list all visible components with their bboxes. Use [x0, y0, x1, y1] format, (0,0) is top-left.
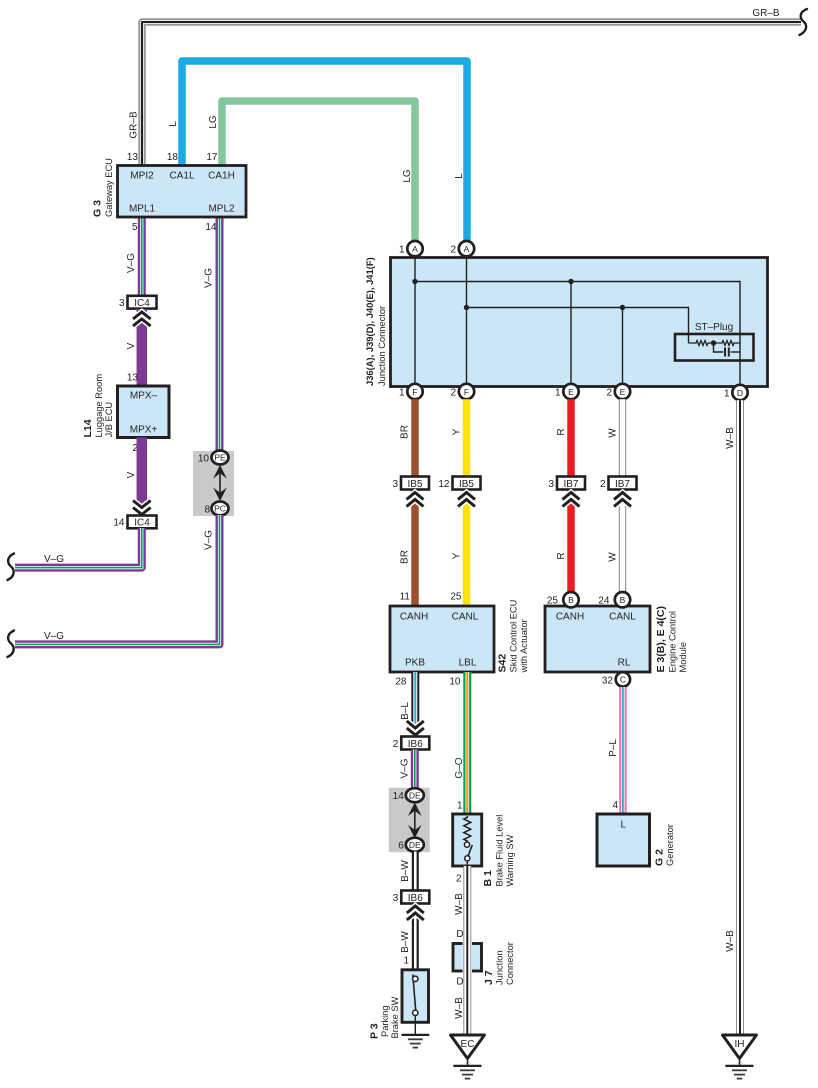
junction connector J36(A) J39(D) J40(E) J41(F) box: [391, 258, 768, 387]
brake fluid level warning switch B1 box: [453, 814, 482, 866]
pin 1 of P3: [403, 956, 409, 967]
svg-text:1: 1: [403, 956, 409, 967]
junction node CANL at 2(A): [464, 305, 469, 310]
svg-text:B–L: B–L: [400, 702, 411, 720]
wire V (violet) IC4 to L14 MPX- pin 13: [137, 309, 148, 386]
svg-text:CA1H: CA1H: [208, 171, 235, 182]
pin 25(B) number: [547, 596, 559, 607]
svg-text:6: 6: [398, 841, 404, 852]
switch SW in B1: [464, 842, 472, 866]
label Y upper: [452, 428, 463, 435]
label W lower: [608, 552, 619, 562]
ground symbol under P3: [402, 1035, 430, 1048]
chevron arrows down above IB6: [407, 721, 424, 735]
internal CANL bus horizontal to ST-plug: [467, 308, 689, 344]
svg-text:GR–B: GR–B: [129, 111, 140, 139]
svg-text:A: A: [412, 244, 418, 254]
wire G-O from S42 LBL pin 10 to B1 pin 1: [463, 672, 471, 815]
svg-text:LG: LG: [402, 169, 413, 183]
connector IB6 pin 2: [393, 737, 430, 751]
wire V-G from IB6 to DE: [411, 750, 419, 791]
label W-B lower right: [725, 930, 736, 952]
svg-text:12: 12: [438, 479, 450, 490]
svg-text:4: 4: [612, 800, 618, 811]
svg-text:R: R: [556, 428, 567, 435]
label J 7 Junction Connector: [483, 942, 515, 985]
svg-text:E: E: [620, 387, 626, 397]
connector IC4 pin 3: [119, 296, 157, 309]
connector DE pin 6: [398, 838, 424, 852]
svg-text:CANL: CANL: [452, 612, 479, 623]
pin 18: [167, 152, 179, 163]
label B 1 Brake Fluid Level Warning SW: [482, 815, 515, 887]
svg-text:5: 5: [132, 222, 138, 233]
internal wire CANL vertical 2(A) to 2(F): [466, 257, 468, 387]
svg-text:B: B: [620, 595, 626, 605]
label B-L: [400, 702, 411, 720]
pin 2 of L14: [132, 443, 138, 454]
label E 3(B), E 4(C) Engine Control Module: [655, 606, 688, 673]
svg-text:3: 3: [548, 479, 554, 490]
svg-text:D: D: [737, 388, 743, 398]
svg-text:V–G: V–G: [204, 268, 215, 288]
wire Y from 2(F) to S42 CANL pin 25: [463, 399, 471, 606]
connector pin 2(E): [606, 384, 630, 399]
svg-text:MPL2: MPL2: [208, 204, 235, 215]
arrow pair between PE and PC: [213, 465, 227, 501]
svg-text:Junction: Junction: [495, 950, 505, 985]
connector pin 1(D): [724, 385, 748, 400]
wire V-G from IC4 to left page break: [15, 528, 142, 568]
svg-text:PC: PC: [214, 504, 226, 514]
wire B-L from S42 PKB pin 28 to IB6: [411, 672, 419, 737]
svg-text:PKB: PKB: [405, 658, 425, 669]
pin 2 of B1: [456, 874, 462, 885]
label V: [126, 342, 137, 349]
svg-text:2: 2: [606, 388, 612, 399]
svg-text:Warning SW: Warning SW: [505, 834, 515, 886]
svg-text:3: 3: [119, 298, 125, 309]
svg-text:GR–B: GR–B: [752, 8, 780, 19]
generator G2 box: [597, 814, 650, 866]
label V-G lower horizontal: [44, 631, 64, 642]
svg-text:D: D: [456, 929, 463, 940]
connector IC4 pin 14: [113, 516, 156, 529]
shield connector gray block DE/DE: [389, 788, 430, 853]
parking brake switch P3 box: [402, 970, 429, 1023]
svg-text:Connector: Connector: [505, 942, 515, 985]
page break symbol left: [8, 554, 15, 581]
svg-text:W–B: W–B: [725, 930, 736, 952]
svg-text:CANL: CANL: [609, 612, 636, 623]
wire V (violet) L14 MPX+ pin 2 down to IC4: [137, 438, 148, 517]
svg-text:F: F: [412, 387, 417, 397]
svg-text:2: 2: [450, 245, 456, 256]
label D upper: [456, 929, 463, 940]
svg-text:32: 32: [602, 676, 614, 687]
label BR lower: [400, 550, 411, 564]
pin 25: [450, 592, 462, 603]
svg-text:W–B: W–B: [454, 997, 465, 1019]
wire V-G from Gateway MPL1 pin 5 down to IC4: [138, 217, 146, 296]
label S42 Skid Control ECU with Actuator: [497, 600, 530, 674]
svg-text:D: D: [456, 977, 463, 988]
label ST-Plug: [695, 322, 733, 333]
connector PE pin 10: [198, 451, 229, 465]
svg-text:L: L: [621, 820, 627, 831]
svg-text:W–B: W–B: [454, 893, 465, 915]
svg-text:W: W: [608, 428, 619, 438]
svg-text:V–G: V–G: [44, 631, 64, 642]
svg-text:IC4: IC4: [134, 298, 150, 309]
pin 13 of L14: [127, 373, 139, 384]
svg-text:13: 13: [127, 152, 139, 163]
svg-text:10: 10: [449, 677, 461, 688]
label W-B lower: [454, 997, 465, 1019]
ground symbol under IH: [725, 1059, 753, 1079]
switch SW1 in P3: [413, 975, 418, 1035]
arrow pair between DE connectors: [408, 803, 422, 839]
internal CANH bus horizontal: [415, 282, 740, 388]
junction node CANL at 2(E): [620, 305, 625, 310]
wire GR-B from Gateway ECU pin 13 to top-right page break: [142, 22, 801, 166]
svg-text:MPI2: MPI2: [130, 171, 154, 182]
wire W-B from 1(D) to ground IH: [736, 400, 744, 1035]
resistor in B1: [464, 816, 471, 842]
svg-text:W: W: [608, 552, 619, 562]
pin 4 of G2: [612, 800, 618, 811]
pin 14: [205, 222, 217, 233]
wire R from 1(E) to ECM CANH pin 25(B): [567, 399, 575, 592]
svg-text:BR: BR: [400, 425, 411, 439]
label V-G below PC: [204, 530, 215, 550]
svg-text:1: 1: [457, 801, 463, 812]
pin 17: [206, 152, 218, 163]
svg-text:IC4: IC4: [134, 518, 150, 529]
svg-text:J 7: J 7: [483, 970, 495, 985]
label W-B: [454, 893, 465, 915]
svg-text:EC: EC: [461, 1039, 475, 1050]
chevron arrows up below IB7: [614, 493, 631, 507]
chevron arrows up below IB5: [458, 493, 475, 507]
svg-text:L: L: [454, 173, 465, 179]
resistor R1 in ST-Plug: [689, 341, 712, 346]
wire W from 2(E) to ECM CANL pin 24(B): [619, 399, 627, 592]
label W upper: [608, 428, 619, 438]
pin 5: [132, 222, 138, 233]
svg-text:B 1: B 1: [482, 870, 494, 887]
label G 3 Gateway ECU: [92, 158, 115, 217]
svg-text:25: 25: [450, 592, 462, 603]
svg-text:PE: PE: [214, 453, 226, 463]
svg-text:MPL1: MPL1: [129, 204, 156, 215]
svg-text:IB5: IB5: [459, 479, 474, 490]
label V-G: [400, 758, 411, 778]
label GR-B horizontal top right: [752, 8, 780, 19]
svg-text:IB6: IB6: [408, 739, 423, 750]
label LG vertical left: [208, 115, 219, 129]
label L14 Luggage Room J/B ECU: [82, 374, 114, 438]
chevron arrows up below IB6: [407, 906, 424, 920]
svg-text:1: 1: [555, 388, 561, 399]
pin 24(B) number: [598, 596, 610, 607]
junction connector J7 box: [453, 941, 482, 974]
chevron arrows up below IB5: [407, 493, 424, 507]
svg-text:10: 10: [198, 454, 210, 465]
wire BR from 1(F) to S42 CANH pin 11: [411, 399, 419, 606]
chevron arrows up below IC4: [133, 312, 151, 326]
svg-text:Brake Fluid Level: Brake Fluid Level: [495, 815, 505, 887]
pin 13: [127, 152, 139, 163]
label P-L: [608, 739, 619, 757]
connector pin 1(A): [399, 241, 423, 256]
wire W-B from B1 pin 2 to ground EC: [463, 866, 471, 1035]
svg-text:3: 3: [393, 893, 399, 904]
svg-text:G 2: G 2: [654, 849, 666, 866]
junction node CANH at 1(E): [568, 279, 573, 284]
svg-text:L: L: [168, 121, 179, 127]
label W-B upper right: [725, 427, 736, 449]
svg-text:A: A: [464, 244, 470, 254]
svg-text:14: 14: [393, 791, 405, 802]
svg-text:V–G: V–G: [204, 530, 215, 550]
shield connector gray block PE/PC: [193, 451, 234, 516]
svg-text:17: 17: [206, 152, 218, 163]
chevron arrows up below IB7: [563, 493, 580, 507]
svg-text:MPX–: MPX–: [130, 391, 158, 402]
connector pin 2(A): [450, 241, 474, 256]
svg-text:1: 1: [399, 388, 405, 399]
svg-text:14: 14: [205, 222, 217, 233]
svg-text:B–W: B–W: [400, 860, 411, 882]
skid control ECU S42 box: [390, 606, 494, 672]
svg-text:R: R: [556, 552, 567, 559]
ground EC triangle: [451, 1035, 485, 1059]
svg-text:DE: DE: [409, 791, 421, 801]
svg-text:8: 8: [204, 505, 210, 516]
connector IB6 pin 3: [393, 891, 430, 905]
svg-text:MPX+: MPX+: [130, 425, 158, 436]
label V-G: [44, 554, 64, 565]
connector DE pin 14: [393, 788, 424, 802]
svg-text:S42: S42: [497, 654, 509, 673]
label BR upper: [400, 425, 411, 439]
page break symbol right end of GR-B: [800, 9, 808, 35]
svg-text:13: 13: [127, 373, 139, 384]
svg-text:14: 14: [113, 518, 125, 529]
svg-text:Engine Control: Engine Control: [668, 611, 678, 673]
svg-text:2: 2: [393, 739, 399, 750]
svg-text:L14: L14: [82, 419, 94, 437]
svg-text:IB5: IB5: [407, 479, 422, 490]
label V-G: [204, 268, 215, 288]
svg-text:Junction Connector: Junction Connector: [377, 306, 387, 386]
svg-text:W–B: W–B: [725, 427, 736, 449]
connector pin 25(B) circle: [563, 592, 578, 607]
svg-text:IH: IH: [735, 1039, 745, 1050]
label L vertical right: [454, 173, 465, 179]
svg-text:LBL: LBL: [459, 658, 477, 669]
label B-W: [400, 860, 411, 882]
svg-text:LG: LG: [208, 115, 219, 129]
svg-text:DE: DE: [409, 840, 421, 850]
svg-text:2: 2: [456, 874, 462, 885]
svg-text:F: F: [464, 387, 469, 397]
label V-G: [126, 253, 137, 273]
label B-W lower: [400, 931, 411, 953]
chevron arrows down above IC4: [133, 501, 151, 515]
label D lower: [456, 977, 463, 988]
svg-text:with Actuator: with Actuator: [519, 619, 529, 673]
svg-text:G–O: G–O: [454, 757, 465, 778]
svg-text:2: 2: [450, 388, 456, 399]
ST-Plug box: [675, 334, 754, 361]
ground IH triangle: [723, 1035, 757, 1059]
connector IB5 pin 12: [438, 477, 480, 491]
wire LG (green) from Gateway CA1H pin 17 to junction connector 1(A): [222, 101, 415, 242]
label L vertical left: [168, 121, 179, 127]
svg-text:P 3: P 3: [369, 1023, 381, 1039]
wire V-G from Gateway MPL2 pin 14 down to PE: [216, 217, 224, 452]
internal wire CANH vertical 1(A) to 1(F): [414, 257, 416, 387]
label Y lower: [452, 552, 463, 559]
svg-text:Skid Control ECU: Skid Control ECU: [509, 600, 519, 673]
pin 28: [395, 677, 407, 688]
svg-text:2: 2: [600, 479, 606, 490]
svg-text:J/B ECU: J/B ECU: [104, 402, 114, 438]
svg-text:Y: Y: [452, 552, 463, 559]
svg-text:V–G: V–G: [44, 554, 64, 565]
pin 11: [400, 592, 411, 603]
svg-text:3: 3: [392, 479, 398, 490]
svg-text:Module: Module: [678, 642, 688, 673]
svg-text:V: V: [126, 342, 137, 349]
svg-text:11: 11: [400, 592, 411, 603]
svg-text:P–L: P–L: [608, 739, 619, 757]
connector pin 1(E): [555, 384, 579, 399]
label P 3 Parking Brake SW: [369, 996, 401, 1039]
svg-text:B: B: [568, 595, 574, 605]
wire W-B through J7: [463, 940, 471, 974]
svg-text:V–G: V–G: [400, 758, 411, 778]
L14 Luggage Room J/B ECU box: [118, 386, 170, 438]
ground symbol under EC: [453, 1059, 481, 1079]
wire B-W from IB6 to parking brake SW pin 1: [412, 904, 419, 972]
svg-text:CANH: CANH: [400, 612, 428, 623]
svg-text:28: 28: [395, 677, 407, 688]
label V: [126, 471, 137, 478]
svg-text:Parking: Parking: [380, 1005, 390, 1037]
connector pin 32(C) circle: [602, 672, 630, 686]
svg-text:IB7: IB7: [615, 479, 630, 490]
label G 2 Generator: [654, 824, 676, 866]
svg-text:G 3: G 3: [92, 200, 104, 217]
svg-text:Gateway ECU: Gateway ECU: [104, 158, 114, 217]
junction node between resistors: [711, 340, 716, 345]
svg-text:CA1L: CA1L: [169, 171, 194, 182]
junction node CANH at 1(A): [412, 279, 417, 284]
wire P-L from ECM RL pin 32(C) to generator pin 4: [619, 687, 627, 814]
svg-text:18: 18: [167, 152, 179, 163]
label R lower: [556, 552, 567, 559]
connector pin 24(B) circle: [615, 592, 630, 607]
wire L (blue) from Gateway CA1L pin 18 to junction connector 2(A): [182, 61, 467, 242]
resistor R2 in ST-Plug: [716, 341, 740, 346]
page break symbol left lower: [8, 631, 15, 658]
svg-text:BR: BR: [400, 550, 411, 564]
svg-text:V–G: V–G: [126, 253, 137, 273]
svg-text:E: E: [568, 387, 574, 397]
pin 10: [449, 677, 461, 688]
connector IB5 pin 3: [392, 477, 429, 491]
Gateway ECU G3 box: [118, 166, 247, 218]
svg-text:RL: RL: [618, 658, 631, 669]
svg-text:Y: Y: [452, 428, 463, 435]
svg-text:Luggage Room: Luggage Room: [94, 374, 104, 438]
svg-text:1: 1: [724, 389, 730, 400]
label GR-B vertical: [129, 111, 140, 139]
engine control module box: [545, 606, 650, 672]
svg-text:C: C: [620, 675, 626, 685]
connector PC pin 8: [204, 502, 228, 516]
capacitor C1 in ST-Plug: [714, 343, 741, 357]
svg-text:CANH: CANH: [556, 612, 584, 623]
svg-text:V: V: [126, 471, 137, 478]
svg-text:E 3(B), E 4(C): E 3(B), E 4(C): [655, 606, 667, 673]
label G-O: [454, 757, 465, 778]
svg-text:ST–Plug: ST–Plug: [695, 322, 733, 333]
connector pin 1(F): [399, 384, 423, 399]
internal wire vertical to 2(E): [622, 308, 624, 388]
svg-text:Generator: Generator: [665, 824, 675, 866]
svg-text:IB7: IB7: [563, 479, 578, 490]
label R upper: [556, 428, 567, 435]
svg-text:J36(A), J39(D), J40(E), J41(F): J36(A), J39(D), J40(E), J41(F): [364, 257, 375, 386]
wire B-W from DE to IB6: [412, 852, 419, 891]
svg-text:Brake SW: Brake SW: [390, 996, 400, 1038]
wire V-G from PC down to left page break: [15, 515, 220, 644]
label J36(A), J39(D), J40(E), J41(F) Junction Connector: [364, 257, 387, 386]
connector IB7 pin 2: [600, 477, 637, 491]
label LG vertical right: [402, 169, 413, 183]
internal wire vertical to 1(E): [570, 282, 572, 388]
svg-text:B–W: B–W: [400, 931, 411, 953]
connector pin 2(F): [450, 384, 474, 399]
connector IB7 pin 3: [548, 477, 585, 491]
pin 1 of B1: [457, 801, 463, 812]
svg-text:1: 1: [399, 245, 405, 256]
